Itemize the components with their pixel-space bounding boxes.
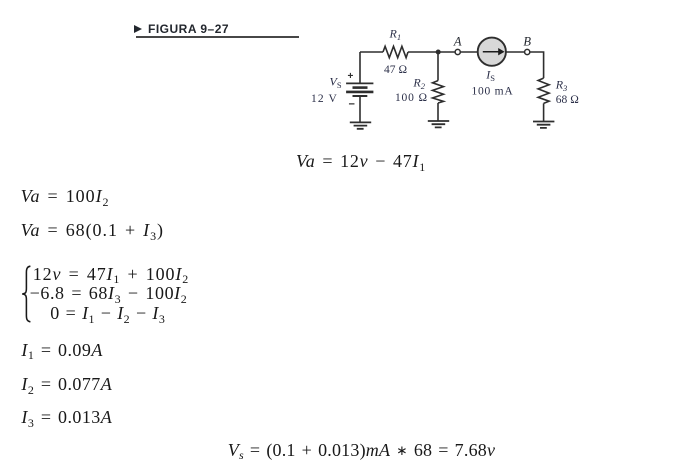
svg-text:R2: R2	[412, 76, 425, 92]
svg-text:12 V: 12 V	[311, 93, 338, 105]
svg-text:R3: R3	[555, 78, 568, 94]
wire B to R3 top corner	[530, 52, 544, 78]
resistor R3	[538, 78, 549, 103]
resistor R1	[383, 46, 408, 57]
wire battery to ground	[359, 96, 361, 122]
node B terminal	[525, 49, 530, 54]
svg-text:IS: IS	[485, 68, 495, 84]
svg-text:47 Ω: 47 Ω	[384, 64, 407, 76]
wire current source to B	[506, 51, 525, 53]
equation Va = 68(0.1 + I3)	[21, 221, 164, 241]
system line 3	[50, 304, 165, 324]
final equation Vs	[228, 441, 495, 461]
svg-text:R1: R1	[389, 27, 402, 43]
svg-text:+: +	[348, 71, 354, 82]
wire A to current source	[460, 51, 478, 53]
I3 = 0.013A	[21, 408, 112, 428]
resistor R2	[437, 52, 439, 81]
system line 1	[33, 265, 189, 285]
system line 2	[30, 284, 188, 304]
svg-text:B: B	[523, 34, 531, 48]
junction dot	[436, 50, 441, 55]
labels	[311, 27, 579, 111]
I1 = 0.09A	[21, 341, 102, 361]
svg-text:100 mA: 100 mA	[472, 86, 514, 98]
wire Vs top to R1	[360, 52, 383, 83]
equation Va = 12v - 47I1	[296, 152, 426, 172]
equation Va = 100I2	[21, 187, 110, 207]
svg-text:A: A	[453, 34, 462, 48]
svg-text:−: −	[349, 99, 355, 111]
wire R1 to node junction to A	[408, 51, 455, 53]
system brace	[20, 264, 34, 324]
ground under R2	[428, 121, 449, 127]
svg-text:100 Ω: 100 Ω	[395, 92, 428, 104]
current source Is	[478, 38, 506, 66]
circuit schematic	[300, 15, 600, 145]
battery Vs plates	[346, 82, 373, 84]
ground under Vs	[350, 122, 371, 128]
ground under R3	[533, 122, 554, 128]
header FIGURA 9-27	[134, 22, 229, 36]
svg-text:VS: VS	[330, 75, 342, 91]
I2 = 0.077A	[21, 375, 112, 395]
node A terminal	[455, 49, 460, 54]
svg-text:68 Ω: 68 Ω	[556, 94, 579, 106]
